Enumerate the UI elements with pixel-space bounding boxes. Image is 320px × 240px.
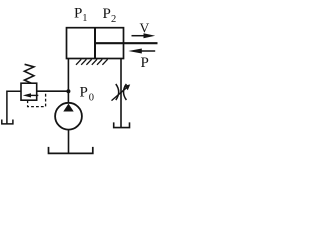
piston xyxy=(94,28,96,58)
throttle valve (adjustable) arcs xyxy=(116,84,127,100)
pilot line (dashed) xyxy=(28,92,46,107)
relief valve V1 body xyxy=(21,83,37,100)
svg-text:V: V xyxy=(140,20,150,35)
wire: cylinder right port to throttle xyxy=(120,58,122,127)
pump body xyxy=(55,103,82,130)
relief valve spring xyxy=(24,64,34,83)
svg-text:2: 2 xyxy=(111,14,116,25)
svg-text:P: P xyxy=(80,85,88,101)
wire: pump suction xyxy=(68,130,70,153)
ground hatching xyxy=(76,59,108,65)
tank T3 (throttle drain) xyxy=(114,122,130,127)
force arrow P xyxy=(128,49,155,54)
svg-text:1: 1 xyxy=(82,13,87,24)
pump flow triangle xyxy=(63,104,73,112)
svg-text:P: P xyxy=(103,6,111,22)
wire: junction to relief valve inlet xyxy=(37,90,69,92)
throttle adjustment arrow xyxy=(112,84,131,100)
label P0 xyxy=(80,85,95,104)
velocity arrow V xyxy=(132,33,156,38)
relief valve flow arrow xyxy=(23,93,39,97)
svg-text:P: P xyxy=(74,5,82,21)
tank T1 (relief valve drain) xyxy=(2,120,13,124)
svg-text:0: 0 xyxy=(89,92,94,103)
wire: relief valve outlet to tank xyxy=(7,91,21,123)
svg-text:P: P xyxy=(141,55,149,71)
cylinder body xyxy=(67,28,124,59)
wire: pump outlet to cylinder left port xyxy=(67,58,69,104)
piston rod xyxy=(95,42,158,44)
label P1 xyxy=(74,5,88,24)
label P2 xyxy=(103,6,117,25)
node P0 junction dot xyxy=(66,89,70,93)
tank T2 (pump suction) xyxy=(49,147,93,154)
